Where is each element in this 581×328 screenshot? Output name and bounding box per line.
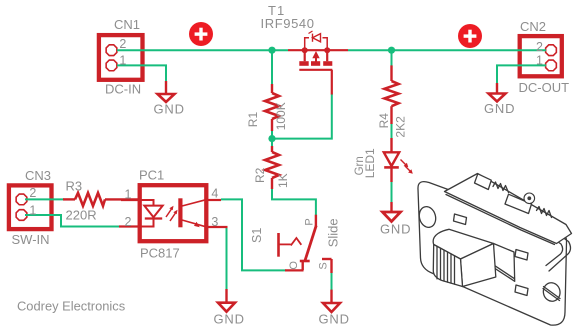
pin name P xyxy=(304,218,316,225)
label Slide xyxy=(325,218,340,247)
svg-text:LED1: LED1 xyxy=(363,148,377,178)
pin number PC1-3 xyxy=(211,215,218,229)
svg-text:R1: R1 xyxy=(246,112,260,128)
pin number CN3-2 xyxy=(29,186,36,200)
svg-text:S: S xyxy=(318,262,330,269)
opto-isolator PC1 xyxy=(119,185,228,241)
pin number PC1-1 xyxy=(125,187,132,201)
wire: rail to R1 top xyxy=(271,50,273,84)
switch S1 xyxy=(279,215,332,273)
label R3 xyxy=(66,179,83,194)
wire: rail to R4 top xyxy=(391,50,393,66)
label PC1 xyxy=(139,168,164,183)
wire: PC1 pin4 to switch O xyxy=(221,199,286,270)
svg-text:IRF9540: IRF9540 xyxy=(261,16,315,31)
label Codrey Electronics xyxy=(17,299,125,314)
pin number CN2-2 xyxy=(536,40,543,54)
label 100K xyxy=(274,102,288,130)
pin number PC1-2 xyxy=(125,215,132,229)
pin name O xyxy=(288,261,300,270)
label 1K xyxy=(276,173,290,188)
svg-text:GND: GND xyxy=(380,222,411,237)
wire: CN1 pin1 to GND xyxy=(117,65,166,82)
svg-text:R3: R3 xyxy=(66,179,83,194)
label R2 xyxy=(253,167,267,183)
label IRF9540 xyxy=(261,16,315,31)
svg-text:1: 1 xyxy=(125,187,132,201)
wire: switch S to GND xyxy=(331,272,333,290)
svg-text:GND: GND xyxy=(484,101,515,116)
ground: CN1 xyxy=(154,81,185,117)
node: rail junction at R4 xyxy=(388,47,395,54)
ground: LED1 xyxy=(380,202,411,237)
label DC-IN xyxy=(105,82,141,97)
svg-text:O: O xyxy=(288,261,300,270)
node A: R1/R2/gate junction xyxy=(268,135,275,142)
svg-text:PC817: PC817 xyxy=(140,246,180,261)
wire: CN3 pin1 to PC1 pin2 xyxy=(25,215,120,227)
wire: CN2 pin1 to GND xyxy=(497,65,546,83)
label DC-OUT xyxy=(519,80,570,95)
label Grn xyxy=(354,156,366,175)
svg-text:1: 1 xyxy=(536,54,543,68)
slide switch illustration xyxy=(417,174,571,326)
label T1 xyxy=(268,3,285,18)
pin number CN1-2 xyxy=(119,37,126,51)
resistor R4 xyxy=(385,65,399,124)
svg-text:3: 3 xyxy=(211,215,218,229)
label CN3 xyxy=(25,168,51,183)
svg-text:4: 4 xyxy=(211,187,218,201)
svg-text:R4: R4 xyxy=(377,113,391,129)
svg-text:2: 2 xyxy=(125,215,132,229)
ground: switch S xyxy=(319,290,350,327)
ground: CN2 xyxy=(484,83,515,116)
pin number CN3-1 xyxy=(29,204,36,218)
svg-text:R2: R2 xyxy=(253,167,267,183)
svg-text:CN1: CN1 xyxy=(114,17,140,32)
connector CN1 xyxy=(99,35,143,80)
label CN1 xyxy=(114,17,140,32)
label R4 xyxy=(377,113,391,129)
svg-text:PC1: PC1 xyxy=(139,168,164,183)
wire: R2 bottom to switch P xyxy=(272,188,316,215)
svg-text:GND: GND xyxy=(154,102,185,117)
svg-text:GND: GND xyxy=(214,312,245,327)
svg-text:Codrey Electronics: Codrey Electronics xyxy=(17,299,125,314)
svg-text:Slide: Slide xyxy=(325,218,340,247)
svg-text:2: 2 xyxy=(29,186,36,200)
label LED1 xyxy=(363,148,377,178)
resistor R2 xyxy=(265,146,279,189)
svg-text:220R: 220R xyxy=(66,207,97,222)
label SW-IN xyxy=(12,232,50,247)
resistor R3 xyxy=(63,193,138,206)
wire: PC1 pin3 to GND xyxy=(226,227,228,290)
wire: node A to R2 top xyxy=(271,139,273,147)
node: rail junction at R1 xyxy=(268,47,275,54)
wire: CN3 pin2 to R3 xyxy=(25,198,64,200)
svg-text:DC-IN: DC-IN xyxy=(105,82,141,97)
pin name S xyxy=(318,262,330,269)
transistor T1 MOSFET body xyxy=(288,31,348,95)
power flag + right xyxy=(458,24,482,48)
svg-text:DC-OUT: DC-OUT xyxy=(519,80,570,95)
wire: main rail T1 to CN2 xyxy=(348,49,546,51)
label 2K2 xyxy=(394,116,408,138)
wire: main rail CN1 to T1 xyxy=(117,49,288,51)
connector CN3 xyxy=(9,185,52,229)
connector CN2 xyxy=(520,36,562,76)
svg-text:2: 2 xyxy=(119,37,126,51)
power flag + left xyxy=(189,22,213,46)
wire: R1 bottom to node A xyxy=(271,130,273,146)
wire: LED1 cathode to GND xyxy=(391,181,393,203)
label PC817 xyxy=(140,246,180,261)
svg-text:2: 2 xyxy=(536,40,543,54)
wire: gate net from T1 to node A xyxy=(272,94,332,139)
label CN2 xyxy=(520,19,546,34)
wire: R4 bottom to LED1 xyxy=(391,124,393,139)
resistor R1 xyxy=(265,84,279,131)
svg-text:P: P xyxy=(304,218,316,225)
pin number PC1-4 xyxy=(211,187,218,201)
svg-text:1: 1 xyxy=(29,204,36,218)
svg-text:CN2: CN2 xyxy=(520,19,546,34)
svg-text:100K: 100K xyxy=(274,102,288,130)
ground: PC1 pin3 xyxy=(214,289,245,327)
svg-text:GND: GND xyxy=(319,312,350,327)
svg-text:SW-IN: SW-IN xyxy=(12,232,50,247)
LED LED1 xyxy=(384,138,413,182)
svg-text:1: 1 xyxy=(119,54,126,68)
svg-text:1K: 1K xyxy=(276,173,290,188)
svg-text:S1: S1 xyxy=(250,228,264,243)
pin number CN2-1 xyxy=(536,54,543,68)
svg-text:CN3: CN3 xyxy=(25,168,51,183)
label R1 xyxy=(246,112,260,128)
svg-text:2K2: 2K2 xyxy=(394,116,408,138)
label 220R xyxy=(66,207,97,222)
pin number CN1-1 xyxy=(119,54,126,68)
label S1 xyxy=(250,228,264,243)
